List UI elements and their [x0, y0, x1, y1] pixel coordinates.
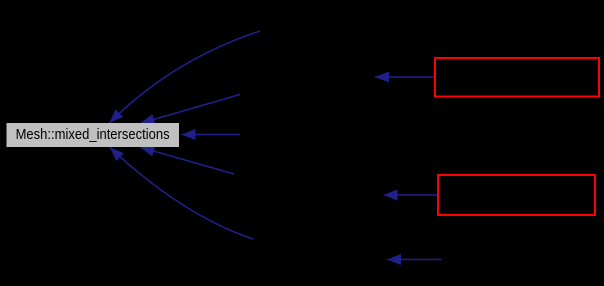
- wire edge C (horizontal caller to Mesh::mixed_intersections): [182, 134, 241, 136]
- wire edge F (from red caller box 1): [375, 76, 434, 78]
- wire edge B (upper-right caller to Mesh::mixed_intersections): [141, 95, 241, 124]
- wire edge H (from hidden bottom caller box): [387, 259, 442, 261]
- wire edge G (from red caller box 2): [384, 194, 438, 196]
- svg-text:Mesh::mixed_intersections: Mesh::mixed_intersections: [16, 126, 170, 143]
- wire edge E (lower-right caller to Mesh::mixed_intersections): [140, 147, 234, 174]
- wire edge A (curved, top caller to Mesh::mixed_intersections): [110, 31, 261, 123]
- wire edge D (curved, bottom caller to Mesh::mixed_intersections): [110, 148, 253, 240]
- node Mesh::mixed_intersections (current function, grey): [7, 123, 180, 147]
- node red caller box 1 (truncated caller): [435, 58, 599, 97]
- node red caller box 2 (truncated caller): [438, 175, 595, 215]
